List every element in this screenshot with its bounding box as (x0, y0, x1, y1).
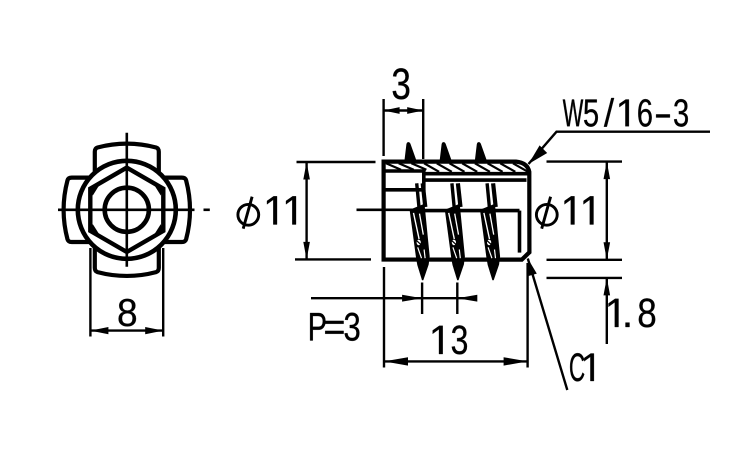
center line dash (204, 209, 210, 212)
thread barb 1 (410, 183, 430, 280)
label C1 (570, 353, 584, 381)
phi11 left dimension line (305, 162, 307, 259)
dimension 3 extension left (382, 99, 384, 156)
dimension 3 line (384, 109, 424, 111)
flange rib lobe bottom (95, 244, 159, 276)
C1 leader arrowhead (528, 259, 537, 277)
hex corner wedge upper-left (91, 183, 101, 195)
hole circle (105, 188, 149, 232)
thread crest band bottom line (424, 172, 529, 176)
phi11 left arrow up (303, 162, 310, 180)
flange rib lobe right (143, 178, 190, 242)
label 13 (433, 326, 443, 354)
dimension 3 extension right (422, 99, 424, 159)
core top line (424, 178, 527, 182)
phi11 left extension top (297, 161, 376, 163)
label 8 (119, 299, 136, 327)
hex corner wedge lower-right (153, 224, 163, 236)
dimension 8 line (90, 329, 163, 331)
hatching of thread crest band (386, 163, 528, 172)
bore bottom line (421, 209, 520, 213)
P=3 arrow pointing left (457, 295, 477, 302)
arrow left of 8 (90, 327, 108, 334)
phi11 right extension top (547, 160, 623, 162)
chamfer callout C1 leader (528, 259, 568, 391)
collar step vertical (422, 169, 426, 191)
external tooth 2 (439, 142, 452, 163)
bore end vertical (518, 211, 522, 253)
label P=3 (310, 313, 325, 341)
label 1.8 (609, 299, 619, 327)
hexagon (90, 168, 163, 252)
phi11 right extension bottom (547, 259, 623, 261)
dimension 1.8 vertical line (606, 278, 608, 344)
arrow right of 8 (145, 327, 163, 334)
center line of right view (357, 209, 422, 212)
arrow left of 3 (384, 107, 400, 114)
label 11 left (267, 196, 277, 224)
dimension 13 line (384, 360, 528, 362)
phi11 left extension bottom (295, 258, 371, 260)
dimension P=3 extension 1 (421, 283, 423, 315)
arrow right of 13 (504, 357, 528, 365)
dimension 13 extension right (526, 263, 528, 368)
leader arrowhead (529, 145, 548, 164)
hex corner wedge lower-left (91, 224, 101, 236)
phi11 right arrow up (604, 162, 611, 180)
arrow left of 13 (384, 357, 408, 365)
external tooth 3 (475, 142, 488, 163)
dimension 1.8 extension line (547, 277, 623, 279)
thread barb 2 (445, 183, 465, 280)
thread crest band bottom line over collar (384, 169, 424, 173)
label 11 right (565, 196, 575, 224)
external tooth 1 (404, 142, 417, 163)
arrow up to 1.8 (604, 278, 611, 296)
dimension P=3 line (311, 297, 476, 299)
collar divider line (384, 188, 424, 192)
phi symbol left (238, 204, 259, 225)
P=3 arrow pointing right (402, 295, 422, 302)
dimension 13 extension left (383, 267, 385, 368)
dimension P=3 extension 2 (456, 283, 458, 315)
label 3 (393, 68, 410, 99)
label W5/16-3 (563, 100, 583, 127)
flange rib lobe top (95, 144, 159, 176)
center line vertical (126, 133, 129, 267)
phi11 right dimension line (606, 162, 608, 260)
body outline (384, 162, 530, 260)
center line horizontal (58, 209, 195, 212)
arrow right of 3 (407, 107, 423, 114)
phi11 right arrow down (604, 242, 611, 259)
phi symbol right (536, 204, 557, 225)
flange circle (78, 161, 176, 259)
phi11 left arrow down (303, 242, 310, 260)
hex corner wedge upper-right (153, 183, 163, 195)
flange rib lobe left (64, 178, 110, 242)
thread callout W5/16-3 leader (529, 132, 711, 164)
thread barb 3 (480, 183, 500, 280)
dimension 8 extension line left (89, 248, 91, 337)
dimension 8 extension line right (162, 248, 164, 337)
